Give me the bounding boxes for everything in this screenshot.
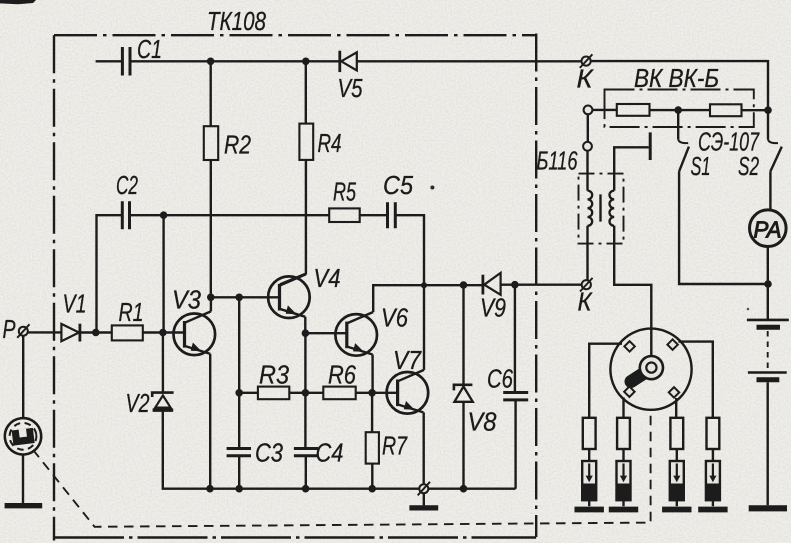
diode V1 (points right) [61, 324, 79, 341]
TK108 boundary: bottom border [54, 536, 536, 538]
node: bottom rail / V3 emitter [206, 485, 214, 493]
wire: C3 column [238, 297, 240, 448]
coil B116 dash-dot box [579, 174, 624, 244]
transistor V3 [174, 314, 216, 356]
wire: branch from C2 line down to V3 base node [162, 215, 164, 332]
node: C2 line / branch to V3 base [160, 211, 168, 219]
suppressor resistor, plug 2 [617, 418, 630, 449]
svg-text:V4: V4 [314, 263, 341, 293]
wire: V3 collector up to node [210, 297, 212, 311]
wire: C6 to bottom rail corner [514, 401, 516, 489]
ignition coil B116 terminal circle [583, 142, 592, 151]
node: top rail / R4 [302, 58, 310, 66]
terminal K (top, circle with slash) [582, 57, 591, 66]
node: battery rail / S1 wire [764, 280, 772, 288]
wire: R5 to C5 [360, 214, 387, 216]
distributor body [610, 329, 691, 410]
svg-text:С1: С1 [137, 34, 162, 64]
switch S1 (SE-107) [677, 110, 679, 139]
wire: C5 right lead, corner down to output rail / V7 collector [397, 215, 425, 285]
node: ballast junction / S1 [674, 106, 682, 114]
wire: R7 leads [371, 393, 374, 489]
wire: C3 to bottom rail [238, 457, 240, 489]
transistor V7 [387, 372, 429, 414]
svg-text:R1: R1 [119, 297, 144, 327]
sensor ground wire [22, 336, 24, 418]
svg-text:S1: S1 [691, 151, 711, 181]
node: right rail / ballast [764, 106, 772, 114]
wire: R4 bottom down to V4 collector [280, 160, 306, 285]
wire: R2 bottom to V3 collector node [210, 160, 212, 297]
wire: distributor to plug 4 [678, 342, 712, 418]
capacitor C2 [122, 201, 129, 229]
svg-text:С2: С2 [116, 170, 138, 200]
svg-text:Б116: Б116 [537, 146, 578, 176]
ground plug 2 [609, 507, 638, 513]
node: output rail / V8 [460, 281, 468, 289]
zener diode V8 (cathode bar up with hook) [454, 385, 473, 391]
wire: R1 to V3 base [143, 331, 185, 333]
paper specks [430, 186, 434, 190]
zener diode V2 (cathode bar up with hook, triangle apex up) [152, 393, 173, 397]
wire: primary bottom to terminal K [586, 226, 588, 280]
distributor electrode 3 (bottom-left) [624, 386, 634, 396]
wire: V8 anode to bottom rail [462, 402, 464, 489]
svg-text:R3: R3 [259, 360, 289, 390]
wire: top rail from V5 across right border to terminal K [357, 60, 582, 62]
wire: secondary bottom to distributor center [614, 226, 651, 356]
wire: V4 emitter node to V6 base [305, 332, 346, 334]
svg-text:С5: С5 [383, 170, 413, 200]
TK108 boundary: left border [53, 35, 55, 540]
wire plug 3 [676, 449, 678, 461]
svg-text:V7: V7 [393, 345, 422, 375]
magneto pickup sensor [3, 416, 44, 457]
wire: V2 anode to bottom rail corner [163, 410, 516, 489]
svg-text:V9: V9 [480, 293, 506, 323]
VK VK-B resistor unit dash-dot box [605, 90, 754, 128]
wire: S1 bottom down and right to battery rail [679, 171, 768, 284]
coil core [599, 194, 601, 221]
resistor R5 [329, 208, 360, 222]
wire: S2 to ammeter [769, 171, 771, 210]
switch S2 (SE-107) [767, 110, 769, 139]
svg-text:К: К [578, 287, 594, 317]
wire: ammeter to battery [767, 247, 769, 320]
svg-text:V3: V3 [172, 285, 201, 315]
terminal P (input, circle with slash) [19, 327, 28, 336]
diode V5 (points left, cathode bar at left) [338, 51, 341, 72]
wire: C2 to R5 line [131, 214, 329, 216]
wire: between VK terminal and coil terminal [587, 114, 589, 142]
svg-text:V2: V2 [126, 388, 150, 418]
wire: V1 to R1 [81, 331, 112, 333]
sensor ground [22, 454, 24, 503]
spark plug 4 [706, 461, 720, 500]
distributor electrode 1 (top-left) [624, 341, 634, 351]
svg-text:R7: R7 [382, 431, 408, 461]
wire: distributor to plug 3 [675, 398, 677, 418]
battery GB cell 1 [747, 319, 789, 322]
svg-text:С3: С3 [255, 438, 283, 468]
wire: R6 to V6 emitter node to V7 base [356, 392, 398, 394]
wire: C4 to bottom rail [305, 457, 307, 489]
wire: R3 leads [239, 392, 323, 394]
battery dashed middle [767, 331, 769, 371]
wire: V4 emitter down / node to V6 base [304, 317, 306, 333]
coil primary winding [588, 191, 593, 226]
svg-text:К: К [577, 64, 595, 94]
spark plug 1 [582, 461, 596, 500]
resistor VK (ballast 1) [617, 104, 650, 116]
wire: R2 column upper [209, 61, 211, 126]
resistor VK-B (ballast 2) [710, 104, 742, 116]
svg-text:S2: S2 [738, 151, 759, 181]
TK108 unit dash-dot boundary box: top border [54, 34, 536, 36]
svg-text:С4: С4 [316, 438, 344, 468]
node: V3 collector / R2 [207, 294, 215, 302]
wire: V3 collector node to V4 base [211, 296, 279, 298]
svg-text:РА: РА [754, 217, 782, 243]
battery GB cell 2 [748, 371, 787, 374]
wire: ballast 2 to right rail [742, 109, 769, 111]
transistor V4 [268, 276, 310, 318]
terminal: common ground bushing on bottom rail [419, 484, 428, 493]
wire: battery minus to ground [767, 382, 769, 505]
wire: V7 emitter down to bottom rail terminal [423, 412, 425, 488]
node: R1 / C2 / V2 / V3 base [159, 329, 167, 337]
wire: V9 to terminal K [501, 284, 582, 286]
svg-text:С6: С6 [487, 364, 513, 394]
wire plug 4 [712, 449, 714, 461]
wire: top rail from K to right rail corner [591, 61, 768, 110]
wire: V7 collector up to output rail [423, 285, 425, 370]
ground plug 4 [698, 507, 727, 513]
resistor R4 [299, 124, 313, 160]
distributor electrode 4 (bottom-right) [669, 387, 679, 397]
svg-text:R5: R5 [333, 177, 356, 207]
node: R3 / R6 / V4 emitter column [302, 389, 310, 397]
resistor R3 [258, 387, 289, 400]
wire: between ballast resistors [650, 109, 711, 111]
ground plug 1 [575, 507, 604, 513]
wire: V2 column from base node down [162, 333, 164, 393]
svg-text:Р: Р [3, 314, 16, 344]
spark plug 3 [670, 461, 684, 500]
HV terminal bar [649, 132, 652, 160]
wire: secondary top to HV terminal [614, 147, 649, 190]
wire: column down to R3-R6 junction and C4 [304, 333, 306, 448]
node: bottom rail / C3 [235, 485, 243, 493]
resistor R6 [323, 387, 355, 400]
svg-text:R6: R6 [328, 360, 356, 390]
suppressor resistor, plug 3 [670, 418, 683, 449]
transistor V6 [335, 314, 377, 356]
wire: C2 left lead down to V1 node [97, 215, 122, 332]
battery ground [749, 505, 787, 511]
node: output rail / C6 [511, 281, 519, 289]
wire plug 2 [622, 449, 624, 461]
node: bottom rail / V8 [460, 485, 468, 493]
capacitor C3 [227, 449, 251, 456]
wire: R4 column upper [305, 61, 307, 123]
capacitor C4 [294, 449, 318, 456]
svg-text:V5: V5 [338, 73, 363, 103]
node: output rail / V7 collector / C5 [421, 282, 427, 288]
svg-text:ТК108: ТК108 [207, 6, 266, 36]
page-edge artifact top-left [0, 0, 36, 4]
ground symbol below bottom rail [423, 493, 425, 505]
capacitor C6 [503, 393, 528, 400]
ground plug 3 [662, 507, 691, 513]
ammeter PA [750, 210, 787, 247]
wire: top supply rail from C1 to V5 [96, 60, 339, 62]
wire: P to V1 [28, 331, 62, 333]
node: bottom rail / C4 [302, 485, 310, 493]
wire: distributor to plug 2 [622, 397, 624, 417]
diode V9 (points left, cathode bar at left) [481, 275, 484, 295]
wire: V6 emitter down to node [371, 355, 373, 393]
resistor R7 [366, 432, 379, 463]
suppressor resistor, plug 4 [707, 418, 720, 449]
node: C3 column / R3 [235, 389, 243, 397]
svg-text:V8: V8 [468, 407, 497, 437]
node: R6 / V6 emitter / R7 / V7 base [368, 389, 376, 397]
wire: V8 column [462, 285, 464, 384]
distributor rotor arm [631, 371, 648, 382]
node: branch down to R3 and C3 [235, 294, 243, 302]
wire: coil terminal into coil box [586, 151, 588, 191]
suppressor resistor, plug 1 [583, 418, 596, 449]
node: top rail / R2 [207, 58, 215, 66]
wire: V6 collector up, corner to output rail [373, 285, 481, 312]
svg-text:V1: V1 [63, 289, 87, 319]
capacitor C1 [122, 47, 130, 76]
spark plug 2 [617, 461, 631, 500]
terminal: VK unit left (open circle) [584, 106, 593, 115]
wire: distributor to plug 1 [589, 344, 622, 418]
mechanical link dashed line sensor-to-distributor [33, 410, 651, 527]
distributor electrode 2 (top-right) [667, 339, 677, 349]
svg-text:V6: V6 [381, 303, 408, 333]
wire: V3 emitter down to bottom rail [209, 354, 211, 489]
svg-text:R4: R4 [318, 128, 342, 158]
resistor R2 [204, 126, 218, 160]
svg-text:ВК ВК-Б: ВК ВК-Б [634, 63, 719, 93]
distributor rotor [640, 356, 663, 379]
wire: VK left terminal to resistor [592, 109, 616, 111]
wire: C6 column [514, 285, 516, 393]
node: V1 cathode / C2 branch [92, 329, 100, 337]
TK108 boundary: right border [535, 34, 537, 538]
node: bottom rail / R7 [368, 485, 376, 493]
wire plug 1 [588, 449, 590, 461]
terminal K (coil output, circle with slash) [582, 280, 591, 289]
svg-text:R2: R2 [224, 130, 251, 160]
capacitor C5 [388, 202, 396, 228]
coil secondary winding [610, 191, 615, 226]
resistor R1 [112, 325, 143, 340]
